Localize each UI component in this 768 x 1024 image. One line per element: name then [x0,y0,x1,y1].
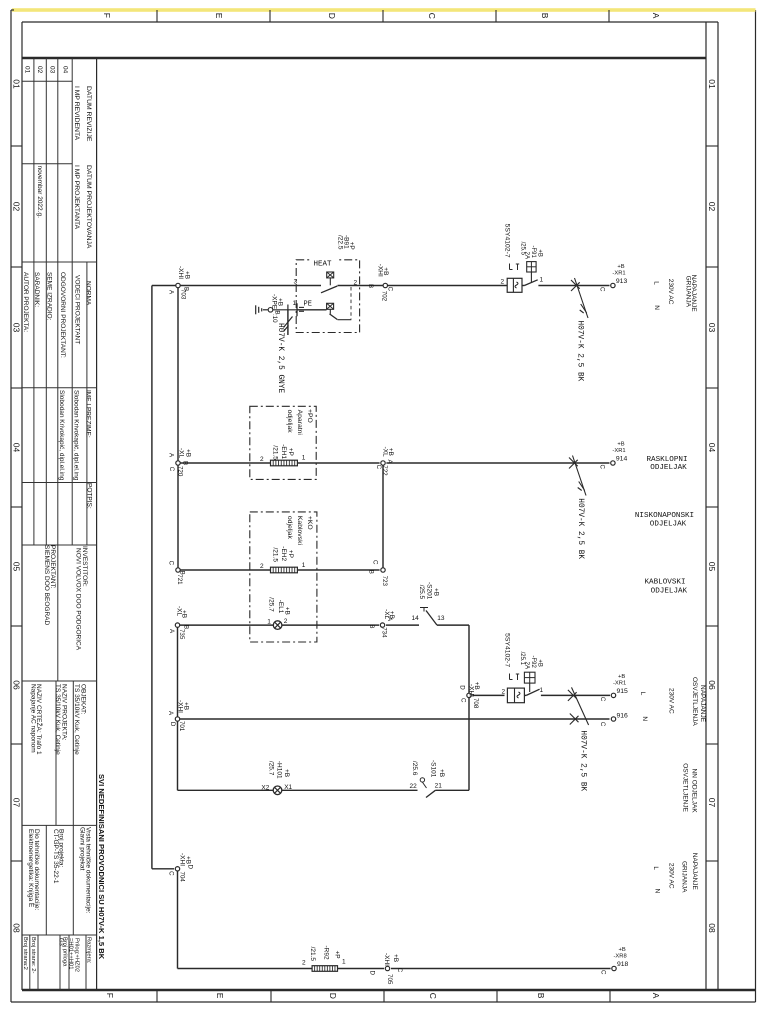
svg-text:Glavni projekat: Glavni projekat [79,827,86,871]
svg-text:L: L [639,692,646,696]
svg-text:novembar 2022.g.: novembar 2022.g. [36,166,43,219]
svg-text:ODGOVORNI PROJEKTANT:: ODGOVORNI PROJEKTANT: [59,272,66,358]
svg-text:701: 701 [178,721,185,732]
svg-text:2A: 2A [524,662,530,669]
svg-text:+B: +B [473,682,480,690]
svg-text:+B: +B [617,264,624,270]
svg-text:D: D [328,993,338,999]
svg-text:01: 01 [707,79,717,89]
svg-text:2: 2 [302,959,306,966]
svg-text:NAPAJANJE: NAPAJANJE [691,853,698,891]
svg-text:N: N [653,889,660,894]
svg-text:C: C [427,13,437,19]
svg-text:22: 22 [410,783,418,790]
svg-text:720: 720 [177,466,184,477]
svg-text:Aparatni: Aparatni [296,410,303,436]
svg-text:+B: +B [536,249,542,257]
svg-text:C: C [599,722,606,727]
svg-text:+B: +B [536,659,542,667]
svg-text:916: 916 [617,713,629,720]
svg-text:-XL: -XL [177,448,184,459]
svg-text:-XR1: -XR1 [613,680,626,686]
svg-text:C: C [598,465,605,470]
svg-text:ODJELJAK: ODJELJAK [651,588,688,596]
svg-text:07: 07 [707,798,717,808]
svg-text:03: 03 [11,323,21,333]
svg-text:/25.5: /25.5 [418,585,425,600]
svg-text:1: 1 [540,277,544,284]
svg-text:OSVJETLJENJA: OSVJETLJENJA [691,677,698,726]
svg-text:+B: +B [387,448,394,456]
svg-text:703: 703 [179,289,186,300]
svg-text:X1: X1 [284,784,292,791]
svg-text:NAPAJANJE: NAPAJANJE [699,685,706,723]
svg-text:+B: +B [283,769,290,777]
svg-text:DATUM REVIZIJE: DATUM REVIZIJE [85,86,92,142]
svg-text:708: 708 [472,698,479,709]
svg-text:-XR8: -XR8 [614,954,627,960]
svg-text:H07V-K 2,5 GNYE: H07V-K 2,5 GNYE [276,323,284,394]
svg-text:C: C [168,871,175,876]
svg-text:914: 914 [616,456,628,463]
svg-text:+B: +B [619,947,626,953]
svg-text:-XR1: -XR1 [612,271,625,277]
svg-text:-XR1: -XR1 [612,448,625,454]
svg-text:-S201: -S201 [425,582,432,600]
svg-text:702: 702 [380,291,387,302]
svg-text:1: 1 [267,619,271,626]
svg-text:03: 03 [49,66,56,74]
svg-text:-EL1: -EL1 [277,600,284,614]
svg-text:GRIJANJA: GRIJANJA [684,276,691,308]
svg-text:-EH1: -EH1 [280,444,287,459]
svg-text:08: 08 [707,923,717,933]
svg-text:DATUM PROJEKTOVANJA: DATUM PROJEKTOVANJA [85,165,92,249]
svg-text:C: C [371,560,378,565]
svg-text:05: 05 [11,562,21,572]
svg-text:04: 04 [61,66,68,74]
svg-text:odjeljak: odjeljak [286,410,293,434]
svg-text:PE: PE [304,301,312,309]
svg-text:RASKLOPNI: RASKLOPNI [646,456,687,464]
svg-text:B: B [536,993,546,999]
svg-text:/21.5: /21.5 [271,548,278,563]
svg-text:B: B [182,461,189,465]
svg-text:D: D [327,13,337,19]
svg-text:D: D [458,685,465,690]
svg-text:723: 723 [381,576,388,587]
svg-text:+PO: +PO [306,409,313,423]
svg-text:2: 2 [502,689,506,696]
svg-text:+P: +P [287,550,294,558]
svg-text:01: 01 [23,66,30,74]
svg-text:D: D [169,722,176,727]
svg-text:NOVI VOLVOX DOO PODGORICA: NOVI VOLVOX DOO PODGORICA [75,548,82,651]
svg-text:/25.7: /25.7 [268,761,275,776]
svg-text:HEAT: HEAT [314,261,333,269]
svg-text:NORMA: NORMA [85,281,92,306]
svg-text:+P: +P [287,448,294,456]
svg-text:SARADNIK:: SARADNIK: [33,272,40,307]
svg-text:735: 735 [178,629,185,640]
svg-text:SIEMENS DOO BEOGRAD: SIEMENS DOO BEOGRAD [43,545,50,625]
svg-text:C: C [396,968,403,973]
svg-text:E: E [214,13,224,19]
svg-text:D: D [368,971,375,976]
svg-text:C: C [599,970,606,975]
svg-text:NISKONAPONSKI: NISKONAPONSKI [635,512,694,520]
svg-text:C: C [428,993,438,999]
svg-text:-R92: -R92 [323,946,330,960]
svg-text:21: 21 [435,782,443,789]
svg-text:-XPE: -XPE [271,294,278,310]
svg-text:918: 918 [617,961,629,968]
svg-text:Slobodan Krivokapić, dipl.el.i: Slobodan Krivokapić, dipl.el.ing [73,390,80,481]
svg-text:A: A [168,629,175,634]
svg-text:1: 1 [302,562,306,569]
svg-text:F: F [102,13,112,18]
svg-text:08: 08 [11,923,21,933]
svg-text:-F92: -F92 [530,656,536,669]
svg-text:A: A [651,993,661,999]
svg-text:/21.5: /21.5 [271,445,278,460]
svg-text:TS 35/10kV Kuk, Cetinje: TS 35/10kV Kuk, Cetinje [73,684,80,755]
svg-text:2: 2 [354,280,358,287]
svg-text:A: A [167,711,174,716]
svg-text:04: 04 [11,443,21,453]
svg-text:5SY4102-7: 5SY4102-7 [504,224,511,258]
svg-text:Broj strane: 2-: Broj strane: 2- [30,937,36,973]
svg-text:+B: +B [182,702,189,710]
svg-text:C: C [599,697,606,702]
svg-text:-XHI: -XHI [383,953,390,966]
svg-text:G3: G3 [58,938,64,946]
svg-text:SEME IZRADIO:: SEME IZRADIO: [46,272,53,321]
svg-text:06: 06 [707,680,717,690]
svg-text:N: N [641,716,648,721]
svg-text:+B: +B [180,610,187,618]
svg-text:230V AC: 230V AC [668,863,675,889]
svg-text:Elektroenergetika: Knjiga E: Elektroenergetika: Knjiga E [27,829,34,908]
svg-text:OSVJETLJENJE: OSVJETLJENJE [681,763,688,812]
svg-text:I MP REVIDENTA: I MP REVIDENTA [73,86,80,141]
svg-text:+B: +B [382,267,389,275]
svg-text:-S101: -S101 [429,760,436,778]
svg-text:I MP PROJEKTANTA: I MP PROJEKTANTA [73,165,80,230]
svg-text:2: 2 [260,456,264,463]
svg-text:+B: +B [617,442,624,448]
svg-text:B: B [368,570,375,574]
svg-text:/21.5: /21.5 [309,947,316,962]
svg-text:721: 721 [176,574,183,585]
svg-text:+B: +B [283,607,290,615]
svg-text:2: 2 [260,563,264,570]
svg-text:705: 705 [386,974,393,985]
svg-text:C: C [375,465,382,470]
svg-text:+B: +B [618,674,625,680]
svg-text:01: 01 [11,79,21,89]
svg-text:A: A [167,453,174,458]
svg-text:L: L [652,866,659,870]
svg-text:+P: +P [334,951,341,959]
svg-text:B: B [368,624,375,628]
svg-text:Napajanje AC naponom: Napajanje AC naponom [29,684,36,753]
svg-text:Razmjera:: Razmjera: [86,937,92,964]
svg-text:+B: +B [184,271,191,279]
svg-text:/25.7: /25.7 [267,597,274,612]
svg-text:5SY4102-7: 5SY4102-7 [503,633,510,667]
svg-text:+B: +B [277,298,284,306]
svg-text:CT-GP-TS 35-22-1: CT-GP-TS 35-22-1 [52,829,59,884]
svg-text:1: 1 [293,300,297,307]
svg-text:N: N [653,305,660,310]
svg-text:04: 04 [707,443,717,453]
svg-text:SVI NEDEFINISANI PROVODNICI SU: SVI NEDEFINISANI PROVODNICI SU H07V-K 1,… [97,774,106,960]
svg-text:L: L [652,281,659,285]
svg-text:ODJELJAK: ODJELJAK [650,464,687,472]
svg-text:+B: +B [392,954,399,962]
svg-text:X2: X2 [261,785,269,792]
svg-text:+KO: +KO [306,516,313,530]
svg-text:IME I PREZIME:: IME I PREZIME: [84,390,91,438]
svg-text:704: 704 [178,872,185,883]
svg-text:C: C [168,561,175,566]
svg-text::10: :10 [271,314,278,323]
svg-text:230V AC: 230V AC [667,279,674,305]
svg-text:1: 1 [342,958,346,965]
svg-text:1: 1 [540,687,544,694]
svg-text:+B: +B [184,449,191,457]
svg-text:VODECI PROJEKTANT: VODECI PROJEKTANT [74,275,81,344]
svg-text:2: 2 [501,278,505,285]
svg-text:03: 03 [707,323,717,333]
svg-text:Kablovski: Kablovski [296,516,303,546]
svg-text:+B: +B [438,769,445,777]
svg-text:02: 02 [707,202,717,212]
svg-text:E: E [215,993,225,999]
svg-text:NN ODJELJAK: NN ODJELJAK [690,769,697,814]
svg-text:B: B [367,284,374,288]
svg-text:14: 14 [412,615,420,622]
svg-text:-H101: -H101 [276,761,283,779]
svg-text:TS 35/10kV Kuk, Cetinje: TS 35/10kV Kuk, Cetinje [54,684,61,755]
svg-text:D: D [186,865,193,870]
svg-text:+B: +B [184,856,191,864]
svg-text:A: A [651,13,661,19]
svg-text:C: C [598,287,605,292]
svg-text:A: A [386,617,393,622]
svg-text:+B: +B [433,588,440,596]
svg-text:-F91: -F91 [530,246,536,259]
svg-text:2A: 2A [524,252,530,259]
svg-text:A: A [167,290,174,295]
svg-text:B: B [540,13,550,19]
svg-text:Broj strana:2: Broj strana:2 [22,937,28,970]
svg-text:C: C [459,698,466,703]
svg-text:H07V-K 2,5 BK: H07V-K 2,5 BK [579,730,587,791]
svg-text:GRIJANJA: GRIJANJA [680,861,687,893]
svg-text:KABLOVSKI: KABLOVSKI [644,578,685,586]
svg-text:-XHI: -XHI [177,266,184,279]
svg-text:odjeljak: odjeljak [286,516,293,540]
svg-text:13: 13 [437,615,445,622]
svg-text:/25.6: /25.6 [411,761,418,776]
svg-text:A: A [386,460,393,465]
svg-text:Slobodan Krivokapić, dipl.el.i: Slobodan Krivokapić, dipl.el.ing [58,390,65,481]
svg-text:-EH2: -EH2 [280,546,287,561]
svg-text:POTPIS:: POTPIS: [85,483,92,509]
svg-text:+P: +P [348,242,355,250]
svg-text:913: 913 [616,278,628,285]
svg-text:/22.5: /22.5 [336,235,343,250]
svg-text:H07V-K 2,5 BK: H07V-K 2,5 BK [576,498,584,559]
svg-text:07: 07 [11,798,21,808]
svg-text:H07V-K 2,5 BK: H07V-K 2,5 BK [575,321,583,382]
svg-text:02: 02 [36,66,43,74]
svg-text:915: 915 [617,688,629,695]
svg-text:05: 05 [707,562,717,572]
svg-text:02: 02 [11,202,21,212]
svg-text:734: 734 [380,627,387,638]
svg-text:06: 06 [11,680,21,690]
svg-text:2: 2 [284,618,288,625]
svg-text:C: C [168,467,175,472]
svg-text:1: 1 [302,454,306,461]
svg-text:ODJELJAK: ODJELJAK [650,520,687,528]
svg-text:722: 722 [381,465,388,476]
svg-text:AUTOR PROJEKTA:: AUTOR PROJEKTA: [22,272,29,332]
svg-text:3: 3 [294,279,298,286]
svg-text:230V AC: 230V AC [667,688,674,714]
svg-text:F: F [105,993,115,998]
